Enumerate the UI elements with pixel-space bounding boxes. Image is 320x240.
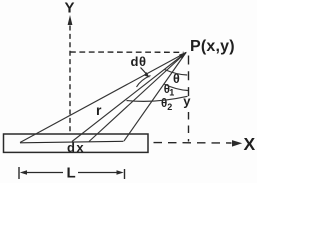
wire line to left end of L: [20, 53, 186, 143]
svg-text:X: X: [244, 134, 256, 154]
d-theta wedge arc: [137, 76, 151, 88]
Y axis arrowhead: [68, 15, 73, 25]
L dimension right arrowhead: [117, 170, 124, 175]
d-theta pointer arrow: [141, 68, 147, 75]
rod rectangle: [4, 134, 149, 152]
svg-text:1: 1: [169, 88, 174, 98]
svg-text:r: r: [96, 102, 102, 118]
svg-text:P(x,y): P(x,y): [190, 38, 235, 55]
L dimension right tick: [124, 169, 126, 179]
svg-text:2: 2: [167, 102, 172, 112]
wire line to right end of L: [124, 53, 186, 142]
svg-text:dx: dx: [67, 140, 85, 155]
theta2 arc: [127, 96, 188, 101]
L dimension left arrowhead: [20, 170, 27, 175]
X axis dashed line: [125, 141, 232, 144]
theta arc: [165, 70, 188, 76]
r arrowhead at P: [179, 52, 187, 59]
L dimension line right segment: [78, 172, 118, 174]
svg-text:dθ: dθ: [131, 54, 147, 69]
wire line to dx left edge (r line): [72, 53, 186, 142]
L dimension left tick: [18, 167, 20, 179]
wire line to dx right edge: [89, 53, 186, 142]
horizontal dashed line from Y axis to P: [70, 51, 184, 53]
Y axis dashed line: [69, 26, 71, 141]
X axis arrowhead: [232, 140, 242, 147]
L dimension line left segment: [26, 172, 63, 174]
svg-text:Y: Y: [64, 0, 74, 17]
svg-text:L: L: [67, 165, 76, 182]
X axis solid segment inside rod: [20, 141, 124, 143]
svg-text:y: y: [183, 94, 191, 109]
vertical dashed line from P down to X axis: [188, 56, 190, 97]
theta1 arc: [164, 84, 188, 91]
